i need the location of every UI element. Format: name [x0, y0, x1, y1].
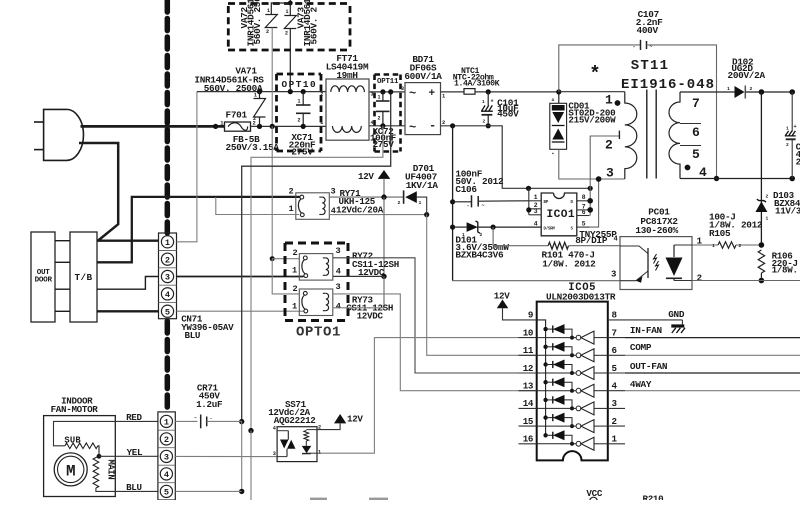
- DC+ rail from bridge: [441, 91, 465, 93]
- svg-text:450V: 450V: [497, 108, 519, 119]
- AC live drop to fan capacitor: [242, 92, 391, 422]
- svg-text:4: 4: [164, 470, 169, 480]
- surge absorber CD01: [558, 92, 560, 103]
- PC01 LED: [674, 244, 692, 246]
- CN72 terminal 5: [160, 485, 172, 497]
- CN71 terminal 4: [161, 288, 173, 300]
- RY73 pin4 wire: [333, 307, 384, 309]
- ICO5 pin 5 stub: [608, 372, 625, 374]
- svg-text:-: -: [429, 119, 436, 133]
- svg-text:1: 1: [164, 418, 169, 428]
- varistor VA72: [271, 3, 290, 15]
- svg-text:-: -: [633, 44, 636, 50]
- svg-text:~: ~: [482, 203, 485, 209]
- svg-text:9: 9: [528, 310, 533, 321]
- svg-text:EI1916-048: EI1916-048: [621, 77, 715, 93]
- board boundary dashed line: [165, 0, 171, 233]
- ICO1 pin 2: [529, 208, 541, 210]
- svg-text:3: 3: [401, 86, 404, 92]
- transformer ST11 primary winding: [559, 91, 625, 93]
- svg-text:3: 3: [336, 282, 341, 292]
- wire T/B row3 to CN71 pin3: [97, 277, 159, 290]
- svg-text:YEL: YEL: [127, 447, 143, 458]
- ICO5 inverter cell 3: [537, 372, 577, 374]
- svg-text:R210: R210: [643, 494, 664, 501]
- transformer core: [646, 90, 648, 179]
- svg-text:560V. 2500: 560V. 2500: [252, 0, 263, 45]
- svg-text:3: 3: [371, 91, 374, 97]
- AC line bottom after fuse: [251, 125, 327, 127]
- CR71 capacitor on RED line: [175, 420, 197, 422]
- CD01 lead to trafo pin3: [559, 149, 625, 179]
- svg-text:T/B: T/B: [74, 272, 92, 283]
- ICO5 pin 8 stub: [608, 319, 625, 321]
- secondary tap 6: [680, 123, 701, 125]
- svg-text:ST11: ST11: [631, 58, 669, 74]
- svg-text:2: 2: [253, 116, 256, 122]
- svg-text:2: 2: [442, 120, 445, 126]
- dashed enclosure for VA72/VA73: [228, 2, 350, 5]
- svg-text:2: 2: [612, 416, 617, 427]
- ICO5 inverter cell 2: [537, 354, 577, 356]
- svg-text:13: 13: [523, 381, 534, 392]
- wire CN71 pin5 to RY73 pin1: [177, 310, 305, 312]
- svg-text:5: 5: [165, 307, 170, 317]
- svg-text:BLU: BLU: [126, 482, 142, 493]
- svg-text:1: 1: [697, 236, 703, 246]
- svg-text:2: 2: [289, 186, 294, 196]
- RY72 pin4 wire: [333, 275, 384, 277]
- svg-text:2: 2: [298, 118, 301, 124]
- wire plug to fuse: [81, 125, 225, 128]
- svg-text:1: 1: [612, 434, 618, 445]
- SS71 LED side: [306, 429, 317, 431]
- svg-text:5: 5: [164, 488, 169, 498]
- capacitor XC72: [380, 89, 385, 94]
- IC ICO5 ULN2003D013TR: [537, 302, 608, 461]
- wire to RY72 pin2: [272, 258, 299, 260]
- solid state relay SS71: [277, 427, 317, 462]
- net 4WAY wire: [625, 390, 800, 392]
- svg-text:3: 3: [273, 451, 276, 457]
- svg-text:15: 15: [523, 416, 534, 427]
- resistor R105: [692, 244, 718, 246]
- ICO5 internal common rail: [537, 320, 546, 435]
- net OUT-FAN wire: [625, 372, 800, 374]
- svg-text:19mH: 19mH: [336, 70, 357, 81]
- svg-text:5: 5: [692, 147, 700, 162]
- capacitor C107: [559, 45, 641, 92]
- svg-text:4: 4: [612, 381, 618, 392]
- CN72 pin3 YEL wire to SS71 pin3: [175, 455, 277, 457]
- relay RY73: [299, 289, 333, 316]
- ICO5 pin 6 stub: [608, 354, 625, 356]
- RY72 pin3 wire down to ICO5 pin12: [333, 258, 537, 373]
- ground symbol: [681, 320, 683, 325]
- svg-text:4: 4: [165, 290, 170, 300]
- secondary phase dot: [685, 165, 691, 171]
- ICO1 pin 1: [529, 200, 541, 202]
- varistor VA73: [289, 3, 291, 16]
- varistor VA71: [257, 89, 262, 94]
- ICO1 pin 6: [577, 215, 590, 217]
- svg-text:4: 4: [534, 221, 538, 228]
- ICO5 pin 9 stub: [519, 319, 537, 321]
- svg-text:2: 2: [164, 435, 169, 445]
- 12V line down relay coils: [383, 197, 385, 276]
- ICO5 inverter cell 5: [537, 407, 577, 409]
- ICO5 pin 3 stub: [608, 407, 625, 409]
- svg-text:IN-FAN: IN-FAN: [630, 325, 663, 336]
- svg-text:11: 11: [523, 345, 534, 356]
- optocoupler PC01: [620, 237, 692, 290]
- CN72 terminal 2: [160, 433, 172, 445]
- PC01 light arrows: [654, 254, 657, 264]
- CN72 terminal 3: [160, 450, 172, 462]
- secondary tap 5: [680, 145, 701, 147]
- svg-text:*: *: [589, 63, 600, 85]
- svg-text:BZXB4C3V6: BZXB4C3V6: [455, 249, 504, 260]
- zener diode D101: [453, 226, 467, 228]
- svg-text:11V/3: 11V/3: [775, 206, 800, 217]
- svg-text:~: ~: [194, 416, 197, 421]
- svg-text:400V: 400V: [637, 25, 659, 36]
- ICO5 input diode cell 2: [543, 345, 547, 349]
- ICO5 input diode cell 5: [543, 398, 547, 402]
- svg-text:12V: 12V: [347, 413, 363, 424]
- ICO5 pin 1 stub: [608, 443, 625, 445]
- svg-text:4: 4: [371, 120, 374, 126]
- svg-text:ULN2003D013TR: ULN2003D013TR: [546, 291, 616, 302]
- dashed box OPT11: [375, 73, 401, 76]
- MAIN lead to BLU: [96, 488, 158, 491]
- svg-text:+: +: [429, 88, 436, 100]
- CN71 terminal 5: [161, 305, 173, 317]
- svg-text:3: 3: [336, 246, 341, 256]
- svg-text:6: 6: [612, 345, 617, 356]
- svg-text:2: 2: [750, 86, 753, 92]
- CN71 terminal 2: [161, 253, 173, 265]
- svg-text:4: 4: [273, 426, 276, 432]
- ICO1 pin 5: [577, 226, 590, 228]
- svg-text:3: 3: [164, 453, 169, 463]
- svg-text:1/8W. 2012: 1/8W. 2012: [542, 258, 596, 269]
- PC01 pin2 wire to right edge: [692, 280, 800, 282]
- svg-text:2: 2: [285, 31, 288, 37]
- svg-text:1: 1: [378, 95, 381, 101]
- svg-text:1: 1: [289, 204, 294, 214]
- svg-text:8P/DIP: 8P/DIP: [575, 235, 608, 246]
- ICO5 input diode cell 6: [543, 415, 547, 419]
- ICO5 input diode cell 7: [543, 433, 547, 437]
- SS71 triac: [277, 430, 288, 432]
- ICO5 input diode cell 4: [543, 380, 547, 384]
- VA73 lead down to AC line: [289, 29, 291, 92]
- ICO5 pin 7 stub: [608, 337, 625, 339]
- svg-text:~: ~: [409, 87, 416, 101]
- svg-text:~: ~: [650, 44, 653, 50]
- svg-text:3: 3: [534, 208, 538, 215]
- wire SS71 pin1 to ICO5 pin10: [317, 338, 519, 454]
- wire T/B row1 to CN71 pin1: [97, 240, 159, 242]
- VA72 lead down to AC neutral: [271, 28, 273, 127]
- OUT DOOR block: [31, 232, 55, 322]
- net COMP wire: [625, 354, 800, 356]
- ICO5 pin 16 stub: [519, 443, 537, 445]
- secondary lower rail: [680, 178, 792, 180]
- svg-text:2: 2: [697, 273, 702, 283]
- D701 output wire down to ICO5 pin11: [427, 215, 537, 356]
- IC ICO1 TNY255P: [541, 193, 577, 236]
- svg-text:AQG22212: AQG22212: [274, 415, 316, 426]
- primary phase dot: [615, 100, 621, 106]
- wire to optocoupler PC01 pin3: [453, 280, 620, 282]
- ICO5 input diode cell 3: [543, 362, 547, 366]
- svg-text:OUT-FAN: OUT-FAN: [630, 361, 668, 372]
- indoor fan motor box: [44, 416, 116, 497]
- ICO1 pin 8: [577, 200, 590, 202]
- wire plug second lead to terminal block: [79, 143, 118, 241]
- diode D102: [735, 86, 745, 98]
- svg-text:5: 5: [612, 363, 618, 374]
- svg-text:1/8W. 2: 1/8W. 2: [772, 265, 800, 276]
- clipped bottom text marks: [310, 498, 327, 500]
- relay RY71: [296, 193, 330, 220]
- ICO5 pin 2 stub: [608, 425, 625, 427]
- ICO5 pin8 wire to GND: [625, 319, 682, 321]
- svg-text:1: 1: [220, 121, 223, 127]
- svg-text:7: 7: [692, 96, 700, 111]
- trafo pin2 tap: [590, 135, 619, 137]
- svg-text:1: 1: [320, 120, 323, 126]
- diode D701: [403, 190, 405, 203]
- svg-text:1: 1: [267, 8, 270, 14]
- svg-text:12VDC: 12VDC: [357, 310, 384, 321]
- RY71 pin1 wire: [216, 197, 299, 215]
- svg-text:OPT10: OPT10: [282, 79, 318, 90]
- ICO5 inverter cell 6: [537, 425, 577, 427]
- svg-text:3: 3: [612, 398, 618, 409]
- svg-text:560V. 2500A: 560V. 2500A: [204, 83, 263, 94]
- svg-text:OPT11: OPT11: [377, 78, 399, 86]
- motor M symbol: [54, 453, 87, 486]
- transformer secondary winding: [680, 91, 735, 93]
- bridge rectifier BD71: [405, 83, 441, 135]
- fan capacitor return to BLU: [241, 422, 243, 492]
- ICO5 pin 4 stub: [608, 390, 625, 392]
- svg-text:2: 2: [605, 138, 613, 153]
- svg-text:12Vdc/20A: 12Vdc/20A: [336, 205, 384, 216]
- svg-text:1: 1: [419, 200, 422, 206]
- svg-text:BLU: BLU: [185, 330, 201, 341]
- trafo pin3 line to ICO1 pin5: [590, 179, 599, 227]
- wire CN71 pin1 up to AC line: [177, 92, 197, 242]
- svg-text:D/SRM: D/SRM: [544, 227, 556, 232]
- svg-text:14: 14: [523, 398, 534, 409]
- svg-text:2: 2: [293, 248, 298, 258]
- svg-text:1: 1: [442, 94, 445, 100]
- line filter FT71: [326, 79, 369, 140]
- capacitor C101 electrolytic: [486, 89, 491, 94]
- svg-text:1KV/1A: 1KV/1A: [406, 180, 439, 191]
- svg-text:25: 25: [796, 157, 800, 168]
- svg-text:RED: RED: [126, 412, 142, 423]
- svg-text:4: 4: [614, 236, 618, 244]
- svg-text:COMP: COMP: [630, 342, 652, 353]
- wire D101 to R101: [493, 227, 548, 246]
- DC- rail from bridge: [441, 126, 591, 189]
- ICO1 pin 7: [577, 209, 590, 211]
- svg-text:4: 4: [336, 266, 341, 276]
- svg-text:215V/200W: 215V/200W: [568, 115, 616, 126]
- svg-text:1: 1: [605, 93, 613, 108]
- wire to RY73 pin2: [272, 259, 299, 294]
- svg-text:GND: GND: [668, 309, 685, 320]
- svg-text:1: 1: [318, 449, 321, 455]
- svg-text:8: 8: [612, 310, 618, 321]
- svg-text:F701: F701: [226, 110, 248, 121]
- svg-text:4: 4: [336, 302, 341, 312]
- fuse F701: [225, 122, 251, 131]
- CN72 pin5 BLU wire: [175, 490, 241, 492]
- 12V supply arrow at SS71: [334, 414, 346, 423]
- svg-text:DOOR: DOOR: [35, 276, 53, 284]
- svg-text:275V: 275V: [291, 147, 313, 158]
- svg-text:FAN-MOTOR: FAN-MOTOR: [51, 404, 99, 415]
- trafo pin2 feedback line to ICO1 pins 8-7-6: [589, 136, 591, 216]
- RY73 pin3 wire down to ICO5 pin13: [333, 294, 537, 391]
- svg-text:OPTO1: OPTO1: [296, 325, 341, 341]
- svg-text:6: 6: [582, 209, 586, 216]
- wire T/B row2 to relay RY71 pin2: [97, 197, 300, 262]
- wire R101 to PC01 pin4: [569, 245, 620, 247]
- ICO5 inverter cell 1: [537, 337, 577, 339]
- svg-text:C106: C106: [455, 184, 477, 195]
- svg-text:MAIN: MAIN: [106, 460, 116, 480]
- svg-text:10: 10: [523, 327, 533, 338]
- zener diode D103: [760, 92, 762, 245]
- VA72 lead continues down to relay commons: [271, 126, 273, 258]
- svg-text:-: -: [210, 417, 213, 422]
- connector CN71: [159, 233, 177, 319]
- svg-text:600V/1A: 600V/1A: [404, 71, 442, 82]
- svg-text:~: ~: [409, 120, 416, 134]
- svg-text:12: 12: [523, 363, 533, 374]
- terminal block T/B: [70, 232, 97, 322]
- ICO1 pin 3: [529, 214, 541, 216]
- svg-text:2: 2: [293, 284, 298, 294]
- ICO5 pin 14 stub: [519, 407, 537, 409]
- wire CN71 pin3 to RY72 pin1: [177, 276, 304, 278]
- CN72 terminal 1: [160, 415, 172, 427]
- svg-text:4: 4: [699, 165, 707, 180]
- svg-text:1: 1: [292, 301, 297, 311]
- stub wires OUT DOOR to T/B: [55, 240, 70, 242]
- svg-text:8: 8: [582, 194, 586, 201]
- svg-text:+: +: [491, 99, 494, 105]
- AC neutral drop to fan circuit: [251, 126, 383, 431]
- svg-text:1.2uF: 1.2uF: [196, 399, 222, 410]
- ICO5 pin 15 stub: [519, 425, 537, 427]
- CN71 terminal 3: [161, 270, 173, 282]
- PC01 phototransistor: [620, 246, 648, 254]
- svg-text:1: 1: [534, 194, 538, 201]
- thermistor NTC1: [464, 89, 475, 95]
- YEL wire: [99, 455, 158, 457]
- net IN-FAN wire: [625, 337, 800, 339]
- SUB left lead to RED: [54, 421, 158, 445]
- svg-text:4WAY: 4WAY: [630, 379, 652, 390]
- branch wire to C106 / D101 / PC01 pin3: [452, 126, 454, 281]
- resistor R101: [548, 242, 568, 249]
- svg-text:1: 1: [165, 238, 170, 248]
- svg-text:1: 1: [727, 86, 730, 92]
- svg-text:2: 2: [378, 116, 381, 122]
- svg-text:3: 3: [606, 166, 614, 181]
- ICO5 pin 13 stub: [519, 390, 537, 392]
- svg-text:130-260%: 130-260%: [635, 225, 678, 236]
- svg-text:2: 2: [320, 91, 323, 97]
- RY71 pin3 wire to 12V and D701: [329, 196, 403, 198]
- ICO5 pin 10 stub: [519, 337, 537, 339]
- ICO1 pins 1-2-3 tie: [528, 188, 530, 215]
- AC plug P1: [44, 109, 84, 160]
- dashed box OPT10: [277, 73, 322, 76]
- ICO5 input diode cell 1: [543, 327, 547, 331]
- svg-text:16: 16: [523, 434, 533, 445]
- svg-text:6: 6: [692, 125, 700, 140]
- svg-text:3: 3: [331, 186, 336, 196]
- svg-text:1: 1: [292, 266, 297, 276]
- ICO5 inverter cell 4: [537, 390, 577, 392]
- svg-text:560V. 2: 560V. 2: [309, 7, 320, 45]
- svg-text:3: 3: [165, 273, 170, 283]
- capacitor XC71: [301, 89, 306, 94]
- svg-text:2: 2: [266, 29, 269, 35]
- capacitor C106: [453, 201, 472, 203]
- svg-text:1.4A/3100K: 1.4A/3100K: [454, 78, 500, 88]
- svg-text:200V/2A: 200V/2A: [728, 70, 766, 81]
- svg-text:7: 7: [612, 327, 617, 338]
- svg-text:12V: 12V: [358, 171, 374, 182]
- 12V supply arrow (relays): [378, 170, 391, 179]
- svg-text:ICO1: ICO1: [547, 209, 575, 221]
- svg-text:R105: R105: [709, 228, 731, 239]
- CN72 terminal 4: [160, 468, 172, 480]
- svg-text:-: -: [467, 203, 470, 209]
- svg-text:1: 1: [298, 99, 301, 105]
- ICO5 pin 12 stub: [519, 372, 537, 374]
- 12V supply arrow at ICO5 pin9: [497, 300, 509, 309]
- svg-text:5: 5: [582, 221, 586, 228]
- svg-text:12V: 12V: [494, 290, 510, 301]
- resistor R106: [758, 250, 764, 273]
- ICO5 inverter cell 7: [537, 443, 577, 445]
- svg-text:3: 3: [611, 270, 616, 280]
- CN71 terminal 1: [161, 236, 173, 248]
- svg-text:250V/3.15A: 250V/3.15A: [226, 142, 280, 153]
- relay RY72: [299, 254, 333, 281]
- RY71 pin4 wire: [329, 214, 426, 216]
- svg-text:2: 2: [398, 200, 401, 206]
- svg-text:M: M: [66, 462, 75, 480]
- wire T/B row4 to CN71 pin5: [97, 310, 159, 312]
- dashed box OPTO1: [285, 242, 348, 245]
- AC line top (filtered live): [197, 91, 326, 93]
- connector CN72: [158, 412, 175, 500]
- svg-text:+: +: [794, 124, 797, 130]
- svg-text:BP: BP: [544, 201, 549, 205]
